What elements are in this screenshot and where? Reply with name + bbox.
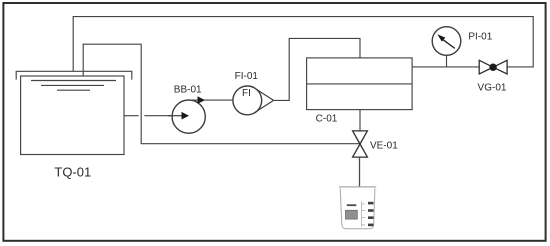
svg-text:VE-01: VE-01 (370, 140, 398, 151)
valve VE-01 (353, 131, 368, 157)
wire: tank outlet to pump (left of crossing gap) (124, 115, 139, 117)
svg-text:PI-01: PI-01 (468, 31, 492, 42)
svg-text:C-01: C-01 (316, 114, 338, 125)
wire: VG-01 outlet up and across top to tank TQ-01 inlet (73, 17, 533, 72)
tank TQ-01 (16, 71, 132, 154)
svg-text:TQ-01: TQ-01 (54, 165, 91, 180)
svg-text:VG-01: VG-01 (478, 83, 507, 94)
wire: C-01 bottom outlet to VE-01 (359, 110, 361, 131)
beaker (339, 187, 376, 229)
wire: tank outlet to pump (right of crossing gap) (144, 115, 182, 117)
wire: FI-01 to top of column C-01 (274, 38, 360, 100)
pressure gauge PI-01 (432, 27, 461, 56)
wire: PI-01 stem (446, 55, 448, 67)
valve VG-01 (479, 60, 507, 74)
svg-text:FI: FI (242, 88, 251, 99)
column C-01 (307, 58, 413, 110)
pump BB-01 (172, 100, 205, 133)
svg-text:FI-01: FI-01 (235, 71, 259, 82)
svg-text:BB-01: BB-01 (174, 84, 202, 95)
wire: recirculation line from VE-01 back over tank (83, 44, 359, 144)
wire: VE-01 down to beaker (359, 157, 361, 187)
flow indicator FI-01 (233, 86, 262, 115)
wire: pump outlet to FI-01 with arrowhead (189, 99, 233, 101)
wire: C-01 right outlet to VG-01 (412, 66, 479, 68)
wire: pump inlet arrow (168, 115, 182, 117)
